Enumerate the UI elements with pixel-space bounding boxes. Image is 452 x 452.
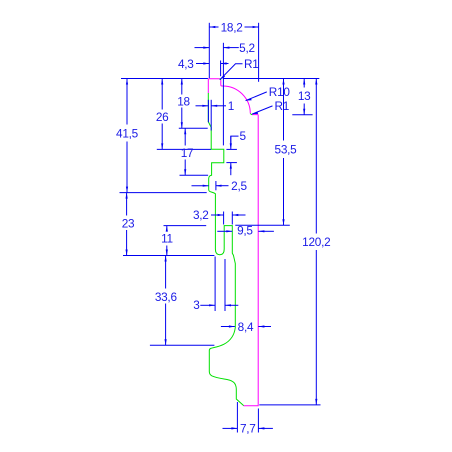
dim 1 left arrow: [196, 105, 209, 107]
dim 26 line: [161, 79, 163, 110]
extension line 5,2 right (long): [222, 43, 224, 146]
dim 41,5 line: [126, 79, 128, 125]
dim 5 hook and top arrow: [231, 136, 239, 143]
dim 8,4 right arrow: [258, 326, 271, 328]
svg-text:8,4: 8,4: [238, 320, 254, 334]
dim 5 tick bottom: [226, 162, 237, 164]
dim 5,2 left arrow: [195, 47, 210, 49]
dim 2,5 left arrow: [192, 185, 209, 187]
svg-text:41,5: 41,5: [116, 126, 139, 140]
svg-text:5: 5: [240, 129, 247, 143]
svg-text:5,2: 5,2: [239, 41, 255, 55]
svg-text:23: 23: [122, 216, 135, 230]
svg-text:53,5: 53,5: [275, 143, 298, 157]
extension line 13 bottom tick: [292, 114, 312, 116]
dim 33,6 line: [165, 256, 167, 289]
svg-text:120,2: 120,2: [302, 235, 330, 249]
extension line 3,2 right: [231, 212, 233, 225]
dim 7,7 right arrow: [258, 427, 273, 429]
dim 18 line: [181, 79, 183, 95]
leader R1 lower: [252, 106, 272, 114]
extension line 11 top: [164, 225, 207, 227]
svg-text:11: 11: [161, 232, 173, 246]
dim 5,2 right arrow and text: [223, 47, 238, 49]
extension line 53,5 bottom: [235, 224, 289, 226]
extension line 23/11 bottom: [123, 255, 214, 257]
dim 9,5 left arrow: [217, 230, 232, 232]
extension line dim 3 right: [224, 259, 226, 311]
profile right edge (magenta): [244, 115, 259, 406]
dim 5 tick top: [226, 148, 237, 150]
svg-text:17: 17: [181, 146, 194, 160]
extension line 41,5 bottom: [120, 192, 207, 194]
dim 4,3 right arrow: [221, 63, 229, 65]
svg-text:3: 3: [193, 298, 200, 312]
svg-text:R10: R10: [269, 85, 291, 99]
dim 2,5 right extension tick: [215, 181, 217, 190]
extension line 7,7 right: [257, 409, 259, 433]
profile top step fillet (green): [220, 79, 221, 80]
extension line 18,2 left: [208, 23, 210, 78]
dim 18,2 line: [209, 26, 218, 28]
svg-text:1: 1: [228, 99, 234, 113]
svg-text:9,5: 9,5: [237, 224, 253, 238]
dim 53,5 line: [283, 79, 285, 141]
dim 3 right arrow: [225, 304, 238, 306]
svg-text:18,2: 18,2: [221, 20, 243, 34]
extension line 7,7 left: [236, 402, 238, 433]
extension line 26 bottom: [157, 148, 211, 150]
extension line dim 1 left: [207, 100, 209, 123]
svg-text:3,2: 3,2: [193, 208, 209, 222]
dim 7,7 left arrow: [223, 427, 238, 429]
top extension line (right part): [223, 78, 319, 80]
extension line 3,2 left: [223, 212, 225, 225]
leader R1 top: [220, 64, 243, 80]
svg-text:18: 18: [177, 94, 190, 108]
dim 17 line: [184, 128, 186, 145]
top extension line (left part): [121, 78, 208, 80]
extension line 4,3 right: [220, 61, 222, 77]
dim 5 bottom arrow: [230, 163, 232, 176]
dim 13 line: [303, 79, 305, 88]
extension line dim 1 right: [210, 100, 212, 131]
profile outline left side (green polyline): [208, 93, 244, 406]
svg-text:4,3: 4,3: [178, 57, 194, 71]
dim 1 right arrow and text: [211, 105, 226, 107]
leader R10: [246, 92, 267, 101]
dim 3,2 right arrow: [232, 214, 245, 216]
extension line 18,2 right: [258, 23, 260, 82]
extension line 17 bottom: [180, 174, 209, 176]
extension line 18 bottom: [179, 127, 208, 129]
extension line 120,2 bottom: [259, 404, 320, 406]
dim 9,5 right arrow: [258, 230, 274, 232]
svg-text:R1: R1: [244, 57, 259, 71]
dim 2,5 right arrow and text: [216, 185, 229, 187]
profile top edge and R10 arc (magenta): [208, 79, 258, 115]
profile arc-end fillet (green): [250, 113, 252, 114]
svg-text:7,7: 7,7: [240, 422, 256, 436]
svg-text:R1: R1: [275, 99, 290, 113]
svg-text:13: 13: [298, 89, 311, 103]
profile left edge top (magenta): [207, 79, 209, 93]
dim 11 line: [166, 226, 168, 231]
svg-text:2,5: 2,5: [231, 179, 247, 193]
dim 120,2 line: [315, 79, 317, 234]
dim 23 line: [126, 193, 128, 216]
extension line dim 3 left: [214, 257, 216, 312]
svg-text:33,6: 33,6: [155, 290, 178, 304]
svg-text:26: 26: [156, 110, 169, 124]
extension line 33,6 bottom: [150, 344, 215, 346]
dim 8,4 left arrow: [221, 326, 235, 328]
